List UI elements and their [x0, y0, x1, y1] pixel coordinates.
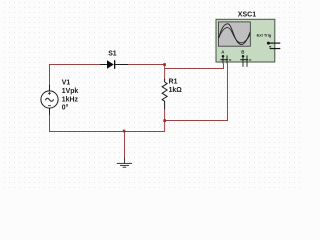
- svg-text:S1: S1: [108, 51, 117, 58]
- svg-text:V1: V1: [62, 79, 71, 86]
- svg-text:1kΩ: 1kΩ: [169, 87, 183, 94]
- svg-text:XSC1: XSC1: [238, 11, 256, 18]
- svg-text:0°: 0°: [62, 104, 69, 112]
- svg-text:B: B: [241, 50, 244, 55]
- svg-text:1Vpk: 1Vpk: [62, 88, 79, 95]
- svg-text:Ext Trig: Ext Trig: [257, 32, 272, 37]
- svg-text:R1: R1: [169, 79, 178, 86]
- svg-text:1kHz: 1kHz: [62, 97, 79, 104]
